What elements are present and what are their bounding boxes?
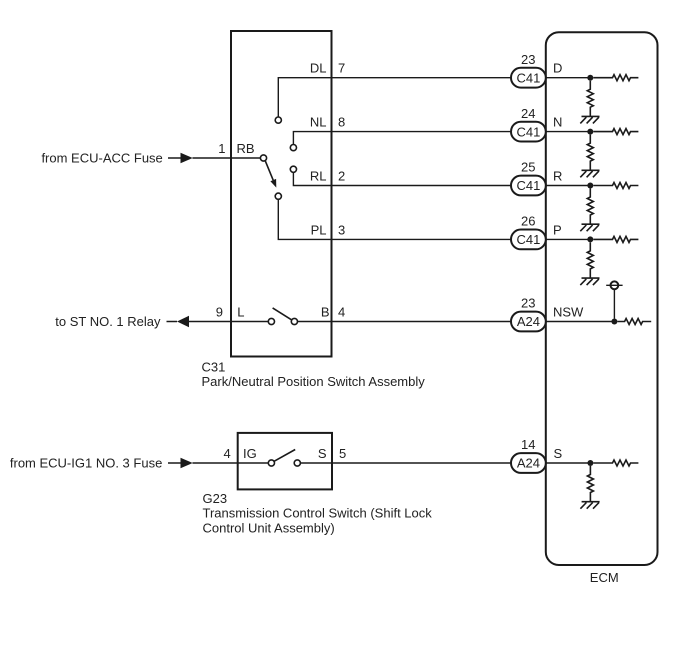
svg-text:C41: C41 xyxy=(516,232,540,247)
svg-text:14: 14 xyxy=(521,437,535,452)
svg-text:C31: C31 xyxy=(202,360,226,375)
svg-text:ECM: ECM xyxy=(590,570,619,585)
svg-text:5: 5 xyxy=(339,446,346,461)
svg-text:Transmission Control Switch (S: Transmission Control Switch (Shift Lock xyxy=(203,506,433,521)
svg-text:C41: C41 xyxy=(516,178,540,193)
svg-text:P: P xyxy=(553,222,562,237)
svg-text:PL: PL xyxy=(311,222,327,237)
svg-text:23: 23 xyxy=(521,52,535,67)
svg-text:4: 4 xyxy=(338,305,345,320)
svg-text:RB: RB xyxy=(237,141,255,156)
svg-text:3: 3 xyxy=(338,222,345,237)
svg-text:C41: C41 xyxy=(516,124,540,139)
svg-text:2: 2 xyxy=(338,169,345,184)
svg-text:NL: NL xyxy=(310,115,327,130)
svg-text:B: B xyxy=(321,305,330,320)
svg-text:S: S xyxy=(554,446,563,461)
svg-text:IG: IG xyxy=(243,446,257,461)
svg-text:L: L xyxy=(237,305,244,320)
svg-text:A24: A24 xyxy=(517,456,540,471)
svg-text:G23: G23 xyxy=(203,491,228,506)
svg-text:A24: A24 xyxy=(517,314,540,329)
svg-text:1: 1 xyxy=(218,141,225,156)
svg-text:N: N xyxy=(553,115,562,130)
svg-text:4: 4 xyxy=(223,446,230,461)
svg-text:25: 25 xyxy=(521,160,535,175)
svg-text:24: 24 xyxy=(521,106,535,121)
svg-text:C41: C41 xyxy=(516,70,540,85)
svg-text:NSW: NSW xyxy=(553,305,584,320)
svg-text:26: 26 xyxy=(521,214,535,229)
svg-text:R: R xyxy=(553,169,562,184)
svg-text:Control Unit Assembly): Control Unit Assembly) xyxy=(203,521,335,536)
svg-text:from ECU-IG1 NO. 3 Fuse: from ECU-IG1 NO. 3 Fuse xyxy=(10,456,162,471)
svg-text:Park/Neutral Position Switch A: Park/Neutral Position Switch Assembly xyxy=(202,374,426,389)
svg-text:8: 8 xyxy=(338,115,345,130)
svg-text:23: 23 xyxy=(521,296,535,311)
svg-text:from ECU-ACC Fuse: from ECU-ACC Fuse xyxy=(41,151,162,166)
svg-text:to ST NO. 1 Relay: to ST NO. 1 Relay xyxy=(55,314,161,329)
svg-text:9: 9 xyxy=(216,305,223,320)
svg-text:7: 7 xyxy=(338,61,345,76)
svg-text:D: D xyxy=(553,61,562,76)
svg-text:DL: DL xyxy=(310,61,327,76)
svg-text:S: S xyxy=(318,446,327,461)
svg-text:RL: RL xyxy=(310,169,327,184)
